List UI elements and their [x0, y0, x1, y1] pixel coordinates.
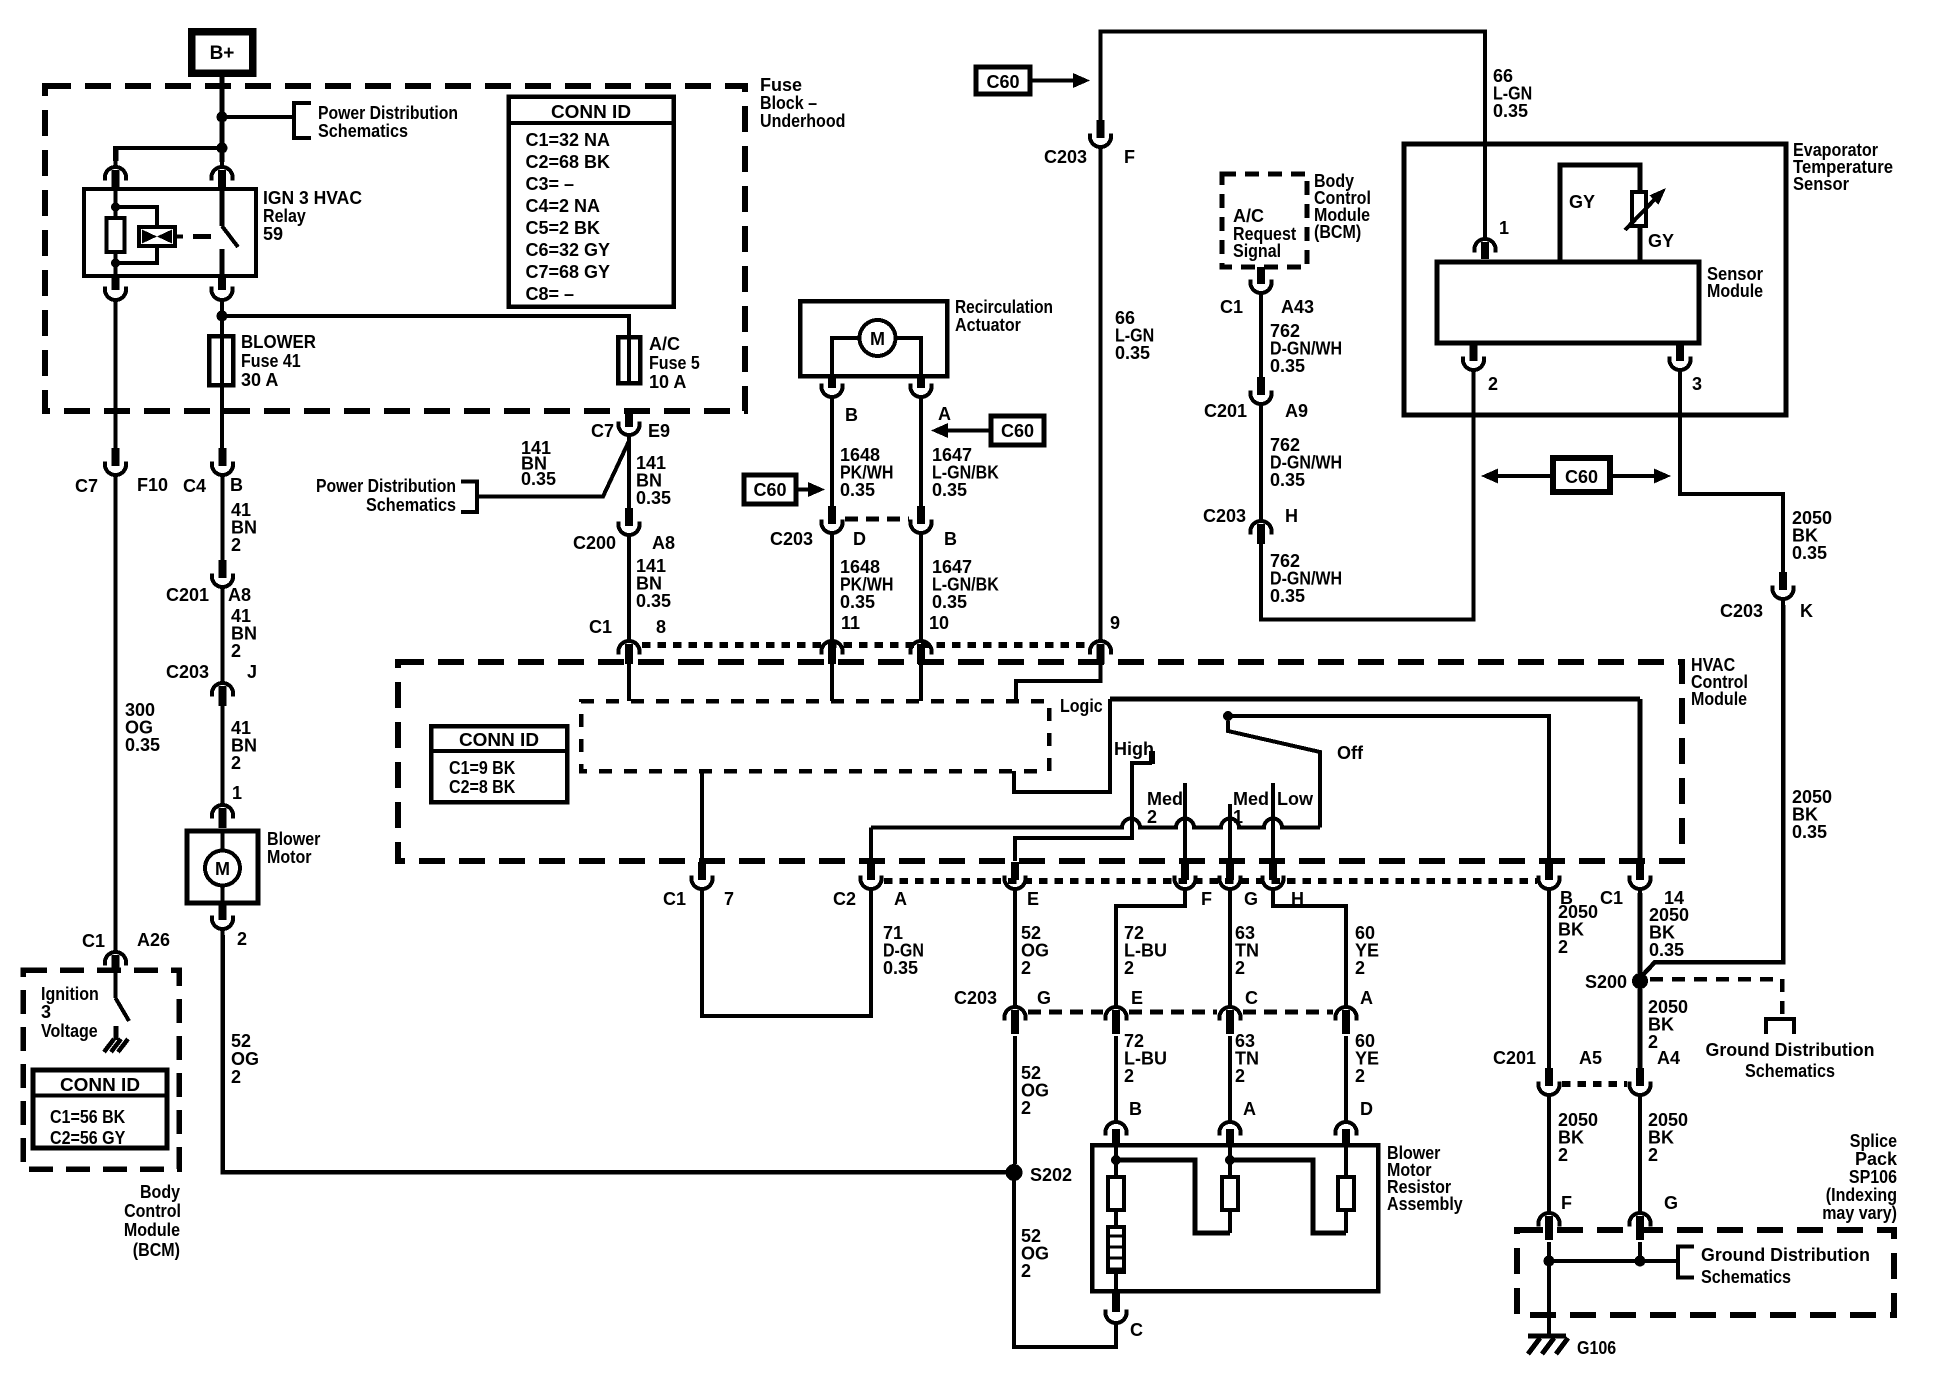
svg-text:2: 2 — [1021, 1098, 1031, 1118]
svg-text:C60: C60 — [753, 480, 786, 500]
svg-text:0.35: 0.35 — [636, 591, 671, 611]
connector resistor pin C — [1112, 1291, 1120, 1312]
svg-text:Splice: Splice — [1850, 1131, 1897, 1151]
svg-text:Schematics: Schematics — [366, 495, 456, 515]
wire actuator internal right — [896, 338, 922, 376]
svg-text:(BCM): (BCM) — [133, 1240, 180, 1260]
svg-text:Power Distribution: Power Distribution — [318, 103, 458, 123]
connector C201 A5 — [1545, 1068, 1553, 1086]
connector C201 A4 — [1636, 1068, 1644, 1086]
off-page bracket ground distribution right — [1766, 1019, 1794, 1034]
svg-text:F: F — [1201, 889, 1212, 909]
wire logic feed to switch and pin B path — [1110, 697, 1640, 702]
off-page bracket ground distribution bottom — [1678, 1247, 1694, 1278]
connector line C201 dotted — [1562, 1081, 1627, 1087]
connector HVAC C1 pin 14 — [1636, 862, 1644, 880]
connector splice pin F — [1539, 1213, 1560, 1227]
node splice S200 — [1632, 973, 1648, 989]
svg-text:1: 1 — [1233, 807, 1243, 827]
connector line C203 dashed — [1028, 1010, 1103, 1015]
connector HVAC C1 pin 10 — [911, 641, 932, 655]
svg-text:Off: Off — [1337, 743, 1364, 763]
svg-text:2: 2 — [231, 535, 241, 555]
resistor element B — [1108, 1177, 1124, 1210]
node switch pivot — [1223, 711, 1233, 721]
svg-text:F: F — [1561, 1193, 1572, 1213]
svg-text:0.35: 0.35 — [840, 480, 875, 500]
wire 63 TN to resistor A — [1228, 1036, 1232, 1116]
arrow C60 to wire A — [948, 429, 991, 433]
ground symbol BCM internal — [104, 1039, 114, 1052]
svg-text:BLOWER: BLOWER — [241, 332, 316, 352]
svg-text:M: M — [215, 859, 230, 879]
svg-text:Actuator: Actuator — [955, 315, 1021, 335]
svg-text:C203: C203 — [1044, 147, 1087, 167]
wire 300 OG to BCM — [114, 481, 118, 945]
connector C7 E9 — [625, 412, 633, 427]
connector box C60 left — [744, 475, 796, 504]
wire pin8 into logic — [627, 664, 631, 701]
svg-text:C7=68 GY: C7=68 GY — [526, 262, 611, 282]
wire 141 BN to HVAC — [627, 541, 631, 636]
connector HVAC C2 pin A — [867, 862, 875, 880]
connector HVAC C1 pin 11 — [822, 641, 843, 655]
wire 52 OG from blower motor to S202 — [223, 935, 1010, 1172]
connector box C60 double — [1553, 458, 1610, 492]
svg-text:High: High — [1114, 739, 1154, 759]
svg-text:Blower: Blower — [267, 829, 320, 849]
svg-text:0.35: 0.35 — [1792, 822, 1827, 842]
wire A4 to splice G — [1638, 1101, 1642, 1207]
switch contact High tick — [1149, 751, 1155, 764]
svg-text:A26: A26 — [137, 930, 170, 950]
svg-text:2: 2 — [1235, 958, 1245, 978]
wire 52 OG to S202 — [1013, 1036, 1017, 1164]
svg-text:Med: Med — [1233, 789, 1269, 809]
svg-text:9: 9 — [1110, 613, 1120, 633]
svg-text:D: D — [1360, 1099, 1373, 1119]
wire 52 OG below S202 — [1014, 1181, 1116, 1347]
svg-text:Schematics: Schematics — [318, 121, 408, 141]
svg-text:Ground Distribution: Ground Distribution — [1706, 1040, 1875, 1060]
svg-text:Relay: Relay — [263, 206, 306, 226]
wire pin H jog right — [1273, 893, 1346, 1002]
svg-text:2: 2 — [1648, 1145, 1658, 1165]
svg-text:GY: GY — [1569, 192, 1595, 212]
wire Low contact to pin H — [1271, 783, 1275, 861]
svg-text:A: A — [1243, 1099, 1256, 1119]
wire 60 YE to resistor D — [1344, 1036, 1348, 1116]
wire resistor A bottom — [1228, 1210, 1232, 1233]
recirculation actuator box — [800, 301, 947, 376]
wire relay output to fuses — [220, 306, 224, 336]
wire pin F jog to resistor col — [1116, 893, 1185, 1002]
wire 141 BN segment — [627, 441, 631, 508]
wire switch feed to pin B — [1228, 716, 1549, 863]
svg-text:C6=32 GY: C6=32 GY — [526, 240, 611, 260]
svg-text:C201: C201 — [1493, 1048, 1536, 1068]
thermistor element — [1632, 192, 1646, 226]
svg-text:Sensor: Sensor — [1793, 174, 1849, 194]
svg-text:52: 52 — [231, 1031, 251, 1051]
svg-text:0.35: 0.35 — [1649, 940, 1684, 960]
svg-text:E9: E9 — [648, 421, 670, 441]
svg-text:Med: Med — [1147, 789, 1183, 809]
svg-text:C201: C201 — [166, 585, 209, 605]
connector relay pin 85 — [105, 167, 126, 181]
svg-text:Pack: Pack — [1855, 1149, 1898, 1169]
wire 66 L-GN to HVAC pin 9 — [1099, 153, 1103, 636]
svg-text:(Indexing: (Indexing — [1826, 1185, 1897, 1205]
connector BCM C1 A43 — [1257, 267, 1265, 284]
wire pin11 into logic — [830, 664, 834, 701]
connector line C2 dotted — [884, 878, 1537, 884]
wire 1648 PK/WH upper — [830, 403, 834, 506]
wire A5 to splice F — [1547, 1101, 1551, 1207]
wire 72 L-BU to resistor B — [1114, 1036, 1118, 1116]
svg-text:C1=9 BK: C1=9 BK — [449, 758, 515, 778]
svg-text:2: 2 — [237, 929, 247, 949]
node resistor bus 1 — [1111, 1155, 1121, 1165]
svg-text:A9: A9 — [1285, 401, 1308, 421]
svg-text:G: G — [1244, 889, 1258, 909]
connector resistor pin A — [1220, 1122, 1241, 1136]
connector HVAC pin E — [1011, 862, 1019, 880]
svg-text:0.35: 0.35 — [883, 958, 918, 978]
svg-text:0.35: 0.35 — [636, 488, 671, 508]
svg-text:Ignition: Ignition — [41, 984, 99, 1004]
wire pin G down — [1228, 893, 1232, 1002]
logic dashed box — [581, 701, 1049, 771]
wire branch to AC fuse — [222, 316, 629, 337]
svg-text:H: H — [1285, 506, 1298, 526]
connector C203 A — [1336, 1007, 1357, 1021]
connector C203 E — [1106, 1007, 1127, 1021]
thermistor arrow — [1625, 197, 1657, 230]
svg-text:2: 2 — [1355, 958, 1365, 978]
svg-text:0.35: 0.35 — [1270, 356, 1305, 376]
svg-text:C1: C1 — [589, 617, 612, 637]
svg-text:Fuse: Fuse — [760, 75, 802, 95]
connector C203 K — [1779, 572, 1787, 590]
wire 1647 L-GN/BK upper — [919, 403, 923, 506]
connector C201 A9 — [1257, 377, 1265, 395]
connector line C1 dotted — [642, 642, 1089, 648]
svg-text:Module: Module — [1707, 281, 1763, 301]
svg-text:0.35: 0.35 — [1493, 101, 1528, 121]
wire 762 upper — [1259, 299, 1263, 377]
connector HVAC pin 7 — [698, 862, 706, 880]
svg-text:OG: OG — [231, 1049, 259, 1069]
svg-text:C203: C203 — [1720, 601, 1763, 621]
svg-text:C: C — [1245, 988, 1258, 1008]
connector HVAC pin B — [1545, 862, 1553, 880]
wire 2050 BK to S200 — [1641, 605, 1783, 977]
wire branch to power distribution schematics — [222, 115, 294, 119]
blower motor resistor assembly box — [1092, 1145, 1378, 1291]
svg-text:C7: C7 — [75, 476, 98, 496]
connector box C60 right — [991, 416, 1044, 445]
svg-text:B: B — [944, 529, 957, 549]
svg-text:2: 2 — [1021, 958, 1031, 978]
svg-text:0.35: 0.35 — [521, 469, 556, 489]
svg-text:C2=56 GY: C2=56 GY — [50, 1128, 125, 1148]
resistor relay coil — [107, 218, 125, 252]
wire 41 BN blower feed — [221, 481, 225, 560]
wire pin A riser — [869, 828, 873, 862]
svg-text:0.35: 0.35 — [840, 592, 875, 612]
wire coil bottom — [114, 252, 118, 276]
svg-text:Module: Module — [124, 1220, 180, 1240]
svg-text:F10: F10 — [137, 475, 168, 495]
svg-text:B: B — [230, 475, 243, 495]
wire resistor B top — [1114, 1145, 1118, 1177]
svg-text:10: 10 — [929, 613, 949, 633]
node splice G junction — [1635, 1256, 1646, 1267]
wire 762 to sensor module pin 2 — [1261, 377, 1474, 620]
resistor element A — [1222, 1177, 1238, 1210]
wire splice G drop — [1638, 1242, 1642, 1261]
svg-text:C2: C2 — [833, 889, 856, 909]
thermal limiter element — [1108, 1227, 1124, 1272]
svg-text:(BCM): (BCM) — [1314, 222, 1361, 242]
svg-text:Power Distribution: Power Distribution — [316, 476, 456, 496]
svg-text:B: B — [1129, 1099, 1142, 1119]
connector C7 F10 — [112, 448, 120, 466]
svg-text:1: 1 — [1499, 218, 1509, 238]
svg-text:A: A — [938, 404, 951, 424]
wire pin E to C203 G — [1013, 893, 1017, 1002]
wire bus1 to resistor A bottom — [1116, 1160, 1230, 1233]
fuse BLOWER Fuse 41 30A — [209, 336, 233, 385]
svg-text:Underhood: Underhood — [760, 111, 845, 131]
wire thermal limiter to pin C — [1114, 1272, 1118, 1291]
wire 66 L-GN top run — [1101, 32, 1486, 234]
relay solenoid box with X — [139, 227, 175, 246]
svg-text:G: G — [1664, 1193, 1678, 1213]
wire BCM ignition feed left column — [114, 306, 118, 448]
svg-text:B+: B+ — [210, 43, 235, 64]
wire S200 to C201 A4 — [1638, 989, 1643, 1068]
conn id table fuse block — [509, 97, 674, 307]
svg-text:2: 2 — [1558, 937, 1568, 957]
svg-text:A43: A43 — [1281, 297, 1314, 317]
svg-text:0.35: 0.35 — [932, 480, 967, 500]
wire pin B to C201 A5 — [1547, 893, 1551, 1068]
node splice F junction — [1544, 1256, 1555, 1267]
svg-text:C3= –: C3= – — [526, 174, 575, 194]
svg-text:C1: C1 — [663, 889, 686, 909]
svg-text:0.35: 0.35 — [1270, 470, 1305, 490]
svg-text:Schematics: Schematics — [1745, 1061, 1835, 1081]
thermistor GY box — [1560, 165, 1640, 262]
connector C4 B — [219, 448, 227, 466]
svg-text:Low: Low — [1277, 789, 1314, 809]
svg-text:J: J — [247, 662, 257, 682]
svg-text:2: 2 — [1147, 807, 1157, 827]
svg-text:GY: GY — [1648, 231, 1674, 251]
svg-text:C60: C60 — [1001, 421, 1034, 441]
node splice S202 — [1006, 1164, 1023, 1181]
connector C203 F — [1097, 120, 1105, 138]
svg-text:C4=2 NA: C4=2 NA — [526, 196, 601, 216]
svg-text:CONN ID: CONN ID — [459, 730, 539, 750]
conn id table BCM — [33, 1070, 167, 1148]
svg-text:C1=56 BK: C1=56 BK — [50, 1107, 125, 1127]
svg-text:A/C: A/C — [649, 334, 680, 354]
svg-text:CONN ID: CONN ID — [551, 102, 631, 122]
node junction to power distribution — [217, 112, 228, 123]
motor symbol blower M — [221, 831, 225, 851]
dashed pigtail S200 to ground distribution — [1650, 979, 1782, 1016]
wire pin C1-14 drop — [1638, 699, 1643, 863]
svg-text:Ground Distribution: Ground Distribution — [1701, 1245, 1870, 1265]
HVAC control module dashed box — [398, 662, 1682, 861]
wire Med1 contact to pin G — [1228, 804, 1232, 861]
wire solenoid branch top — [116, 207, 158, 227]
node coil top — [111, 203, 120, 212]
connector actuator pin B — [828, 376, 836, 388]
connector HVAC C1 pin 8 — [619, 641, 640, 655]
wire pin 7 from logic — [700, 771, 704, 861]
connector line C203 D-B — [845, 517, 909, 522]
wire bus2 to resistor D bottom — [1230, 1160, 1346, 1233]
svg-text:Module: Module — [1691, 689, 1747, 709]
wire resistor B to thermal limiter — [1114, 1210, 1118, 1227]
wire sensor pin3 to C203 K — [1680, 376, 1783, 572]
blower motor box — [187, 831, 258, 903]
svg-text:C60: C60 — [986, 72, 1019, 92]
svg-text:C7: C7 — [591, 421, 614, 441]
power symbol B+ box — [192, 32, 253, 74]
svg-text:A: A — [1360, 988, 1373, 1008]
connector HVAC C1 pin 9 — [1090, 641, 1111, 655]
wire resistor A top — [1228, 1145, 1232, 1177]
wire 762 middle — [1259, 410, 1263, 515]
wire blower fuse output — [220, 385, 224, 448]
wire resistor D bottom — [1344, 1210, 1348, 1233]
fuse block underhood dashed box — [45, 86, 745, 411]
svg-text:C203: C203 — [770, 529, 813, 549]
connector HVAC pin G — [1226, 862, 1234, 880]
connector box C60 top — [976, 67, 1030, 94]
svg-text:G: G — [1037, 988, 1051, 1008]
connector HVAC pin H — [1269, 862, 1277, 880]
node resistor bus 2 — [1225, 1155, 1235, 1165]
svg-text:8: 8 — [656, 617, 666, 637]
connector C203 C — [1220, 1007, 1241, 1021]
wire splice bus — [1549, 1259, 1678, 1263]
svg-text:A/C: A/C — [1233, 206, 1264, 226]
svg-text:2: 2 — [1355, 1066, 1365, 1086]
svg-text:K: K — [1800, 601, 1813, 621]
connector blower motor pin 2 — [219, 903, 227, 920]
wire loop pin7 to pinA 71 D-GN — [702, 893, 871, 1016]
svg-text:2: 2 — [1021, 1261, 1031, 1281]
svg-text:M: M — [870, 329, 885, 349]
svg-text:A4: A4 — [1657, 1048, 1680, 1068]
wire 1647 L-GN/BK lower — [919, 539, 923, 636]
svg-text:2: 2 — [231, 1067, 241, 1087]
switch blade Off position — [1228, 721, 1320, 828]
svg-text:0.35: 0.35 — [125, 735, 160, 755]
arrow C60 to 66 LGN wire — [1030, 79, 1073, 83]
switch contact bus from pin A — [871, 819, 1320, 828]
wire solenoid branch bottom — [116, 246, 158, 263]
connector resistor pin D — [1336, 1122, 1357, 1136]
svg-text:C1: C1 — [1220, 297, 1243, 317]
BCM A/C request signal dashed box — [1222, 174, 1307, 267]
svg-text:2: 2 — [1488, 374, 1498, 394]
ignition 3 voltage switch — [114, 973, 118, 998]
svg-text:Logic: Logic — [1060, 696, 1103, 716]
sensor module box — [1437, 262, 1699, 343]
conn id table HVAC — [431, 726, 567, 802]
svg-text:Body: Body — [140, 1182, 180, 1202]
node coil bottom — [111, 259, 120, 268]
svg-text:CONN ID: CONN ID — [60, 1075, 140, 1095]
fuse A/C Fuse 5 10A — [618, 337, 640, 383]
wire solenoid to blade link — [175, 235, 183, 239]
connector C203 G — [1005, 1007, 1026, 1021]
svg-text:2: 2 — [1558, 1145, 1568, 1165]
svg-text:C203: C203 — [954, 988, 997, 1008]
svg-text:E: E — [1027, 889, 1039, 909]
connector C201 A8 — [219, 560, 227, 578]
svg-text:S200: S200 — [1585, 972, 1627, 992]
off-page bracket power distribution — [294, 103, 311, 138]
wire B+ feed — [220, 73, 225, 162]
wire pin14 to S200 — [1638, 893, 1643, 973]
svg-text:3: 3 — [41, 1002, 51, 1022]
off-page bracket power distribution lower — [461, 482, 477, 513]
svg-text:G106: G106 — [1577, 1338, 1616, 1358]
svg-text:2: 2 — [231, 753, 241, 773]
connector HVAC pin F — [1181, 862, 1189, 880]
svg-text:C2=68 BK: C2=68 BK — [526, 152, 611, 172]
splice pack SP106 dashed box — [1517, 1230, 1894, 1315]
svg-text:1: 1 — [232, 783, 242, 803]
svg-text:C: C — [1130, 1320, 1143, 1340]
svg-text:may vary): may vary) — [1822, 1203, 1897, 1223]
connector splice pin G — [1630, 1213, 1651, 1227]
arrow C60 to wire B — [796, 488, 808, 492]
svg-text:2: 2 — [231, 641, 241, 661]
relay coil wire — [114, 189, 118, 219]
svg-text:0.35: 0.35 — [1270, 586, 1305, 606]
connector C200 A8 — [625, 508, 633, 526]
svg-text:2: 2 — [1124, 958, 1134, 978]
node junction to relay coil branch — [217, 143, 228, 154]
wire 41 BN 2 third segment — [221, 706, 225, 799]
svg-text:S202: S202 — [1030, 1165, 1072, 1185]
relay switch blade — [220, 189, 225, 226]
body control module dashed box — [23, 970, 179, 1169]
connector BCM C1 A26 — [105, 952, 126, 966]
svg-text:C1=32 NA: C1=32 NA — [526, 130, 611, 150]
wire 1648 PK/WH lower — [830, 539, 834, 636]
svg-text:B: B — [845, 405, 858, 425]
svg-text:E: E — [1131, 988, 1143, 1008]
svg-text:C201: C201 — [1204, 401, 1247, 421]
svg-text:F: F — [1124, 147, 1135, 167]
connector C203 D — [828, 506, 836, 524]
svg-text:0.35: 0.35 — [932, 592, 967, 612]
svg-text:Motor: Motor — [267, 847, 312, 867]
connector actuator pin A — [917, 376, 925, 388]
svg-text:C203: C203 — [1203, 506, 1246, 526]
wire High contact to pin E — [1015, 763, 1152, 861]
